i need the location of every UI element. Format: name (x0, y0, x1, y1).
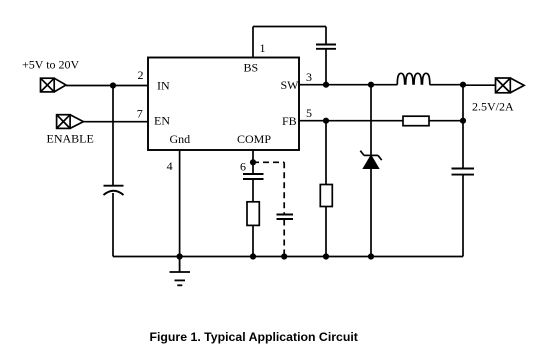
svg-text:1: 1 (260, 41, 266, 55)
svg-text:7: 7 (137, 107, 143, 121)
resistor R2 (feedback bottom, vertical) (320, 185, 332, 207)
svg-text:Figure 1. Typical Application: Figure 1. Typical Application Circuit (149, 330, 357, 344)
svg-text:2.5V/2A: 2.5V/2A (472, 99, 514, 113)
svg-text:SW: SW (281, 78, 300, 92)
wire: bottom ground rail (113, 256, 463, 258)
wire: R2 bottom lead (325, 207, 327, 257)
svg-text:ENABLE: ENABLE (47, 131, 94, 145)
capacitor C_COMP (series) (243, 174, 264, 179)
wire: COMP pin 6 lead (252, 150, 254, 174)
wire: bootstrap cap top lead (325, 27, 327, 45)
svg-text:+5V to 20V: +5V to 20V (22, 57, 80, 71)
wire: comp resistor bottom lead (252, 225, 254, 256)
wire: input cap bottom lead (112, 193, 114, 257)
svg-text:IN: IN (157, 79, 170, 93)
input connector J1 (+5V to 20V) (41, 78, 67, 92)
wire: output cap bottom lead to bottom rail corner (462, 175, 464, 257)
wire: dashed comp branch horizontal (253, 161, 284, 163)
wire: Gnd pin 4 vertical (179, 150, 181, 257)
wire: diode rail vertical (370, 85, 372, 257)
IC U1 body (148, 58, 299, 151)
capacitor C_BS (bootstrap) (316, 45, 336, 49)
wire: output rail vertical (462, 85, 464, 168)
svg-text:4: 4 (167, 159, 173, 173)
capacitor C_COMP2 (optional, dashed branch) (277, 215, 294, 220)
svg-text:FB: FB (282, 114, 297, 128)
resistor R1 (feedback top, horizontal) (403, 116, 429, 126)
wire: FB bottom resistor top lead (325, 121, 327, 185)
svg-text:3: 3 (306, 70, 312, 84)
wire: R1 to output rail (429, 120, 463, 122)
svg-text:2: 2 (138, 68, 144, 82)
ground symbol (170, 257, 191, 286)
wire: bootstrap cap bottom lead to SW node (325, 50, 327, 85)
wire: dashed comp branch vertical bottom (283, 220, 285, 257)
wire: comp cap to comp resistor (252, 180, 254, 202)
svg-text:COMP: COMP (237, 132, 271, 146)
wire: top bootstrap horizontal (253, 26, 326, 28)
wire: dashed comp branch vertical top (283, 162, 285, 214)
capacitor C_OUT (output) (452, 169, 475, 175)
resistor R_COMP (vertical) (247, 202, 259, 226)
capacitor C_IN (input, polarized) (104, 186, 124, 195)
inductor L1 (397, 73, 430, 85)
svg-text:EN: EN (154, 114, 170, 128)
diode D1 (schottky) (360, 151, 381, 169)
svg-text:6: 6 (240, 160, 246, 174)
wire: IN pin 2 (66, 85, 148, 87)
input connector J2 (ENABLE) (57, 115, 84, 129)
wire: inductor to output node (430, 84, 463, 86)
wire: EN pin 7 (84, 121, 149, 123)
wire: SW pin 3 to inductor (299, 84, 397, 86)
wire: input rail vertical (112, 86, 114, 186)
output connector J3 (2.5V/2A) (496, 78, 525, 93)
wire: BS pin 1 vertical (252, 27, 254, 58)
svg-text:BS: BS (244, 60, 259, 74)
wire: FB pin 5 to node (299, 120, 403, 122)
svg-text:5: 5 (306, 106, 312, 120)
svg-text:Gnd: Gnd (170, 132, 191, 146)
